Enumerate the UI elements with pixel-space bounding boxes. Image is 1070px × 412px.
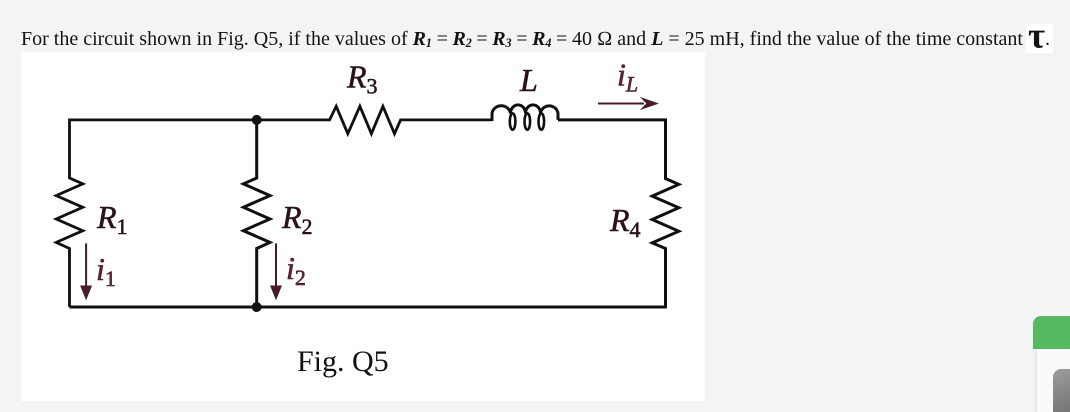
svg-text:iL: iL (617, 57, 638, 97)
svg-text:i1: i1 (96, 251, 116, 291)
svg-text:Fig. Q5: Fig. Q5 (297, 345, 389, 378)
svg-text:R3: R3 (346, 59, 378, 99)
svg-text:R4: R4 (609, 202, 641, 242)
svg-text:R1: R1 (96, 199, 128, 239)
svg-text:L: L (519, 62, 538, 98)
svg-text:R2: R2 (281, 199, 313, 239)
svg-text:i2: i2 (286, 250, 306, 290)
